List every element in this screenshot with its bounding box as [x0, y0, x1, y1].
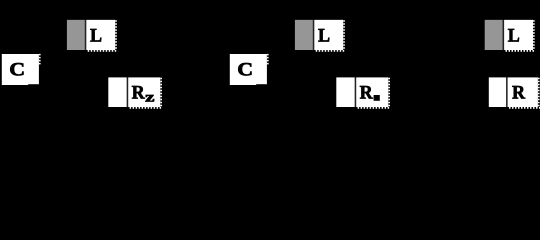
inductor L3 separator line [503, 20, 504, 50]
resistor Rz dashed right edge [160, 78, 162, 107]
svg-text:L: L [508, 25, 520, 47]
inductor L2 separator line [313, 20, 314, 50]
svg-text:R: R [132, 82, 146, 104]
resistor Ra label box [336, 77, 390, 107]
inductor L1 gray swatch [67, 20, 85, 50]
resistor R3 white box [489, 77, 506, 107]
resistor R3 label box [489, 77, 540, 107]
resistor R3 dashed bottom edge [509, 107, 540, 109]
svg-text:R: R [512, 82, 526, 104]
capacitor C2 white box [230, 54, 267, 85]
resistor Ra square subscript [374, 95, 380, 101]
resistor R3 white box [508, 77, 538, 107]
inductor L3 label box [485, 20, 535, 51]
resistor Ra dashed bottom edge [358, 107, 390, 109]
svg-text:R: R [360, 82, 374, 104]
inductor L2 gray swatch [295, 20, 313, 50]
inductor L1 dashed bottom edge [88, 50, 117, 52]
svg-text:z: z [145, 89, 154, 105]
resistor Rz white box [108, 77, 127, 107]
inductor L1 white box [86, 20, 115, 50]
inductor L3 gray swatch [485, 20, 503, 50]
resistor Ra white box [336, 77, 355, 107]
resistor Ra white box [356, 77, 388, 107]
capacitor C1 white box [2, 54, 39, 85]
capacitor C2 label box [230, 54, 268, 85]
resistor Ra separator line [355, 77, 356, 107]
inductor L2 dashed right edge [343, 20, 345, 50]
svg-text:C: C [237, 60, 253, 80]
inductor L3 white box [504, 20, 533, 50]
inductor L2 white box [314, 20, 343, 50]
capacitor C1 bottom-right notch [28, 84, 39, 85]
resistor R3 separator line [506, 77, 507, 107]
svg-text:L: L [318, 25, 330, 47]
resistor Rz label box [108, 77, 162, 107]
capacitor C2 dashed right edge [267, 54, 269, 66]
capacitor C1 dashed right edge [39, 54, 41, 66]
resistor Rz white box [128, 77, 160, 107]
resistor Ra dashed right edge [388, 78, 390, 107]
resistor Rz dashed bottom edge [130, 107, 162, 109]
capacitor C1 label box [2, 54, 40, 85]
svg-text:C: C [9, 60, 25, 80]
inductor L3 dashed right edge [533, 20, 535, 50]
inductor L3 dashed bottom edge [506, 50, 535, 52]
resistor Rz separator line [127, 77, 128, 107]
inductor L1 dashed right edge [115, 20, 117, 50]
inductor L1 separator line [85, 20, 86, 50]
svg-text:L: L [90, 25, 102, 47]
resistor R3 dashed right edge [538, 78, 540, 107]
inductor L1 label box [67, 20, 117, 51]
capacitor C2 bottom-right notch [256, 84, 267, 85]
inductor L2 dashed bottom edge [316, 50, 345, 52]
inductor L2 label box [295, 20, 345, 51]
